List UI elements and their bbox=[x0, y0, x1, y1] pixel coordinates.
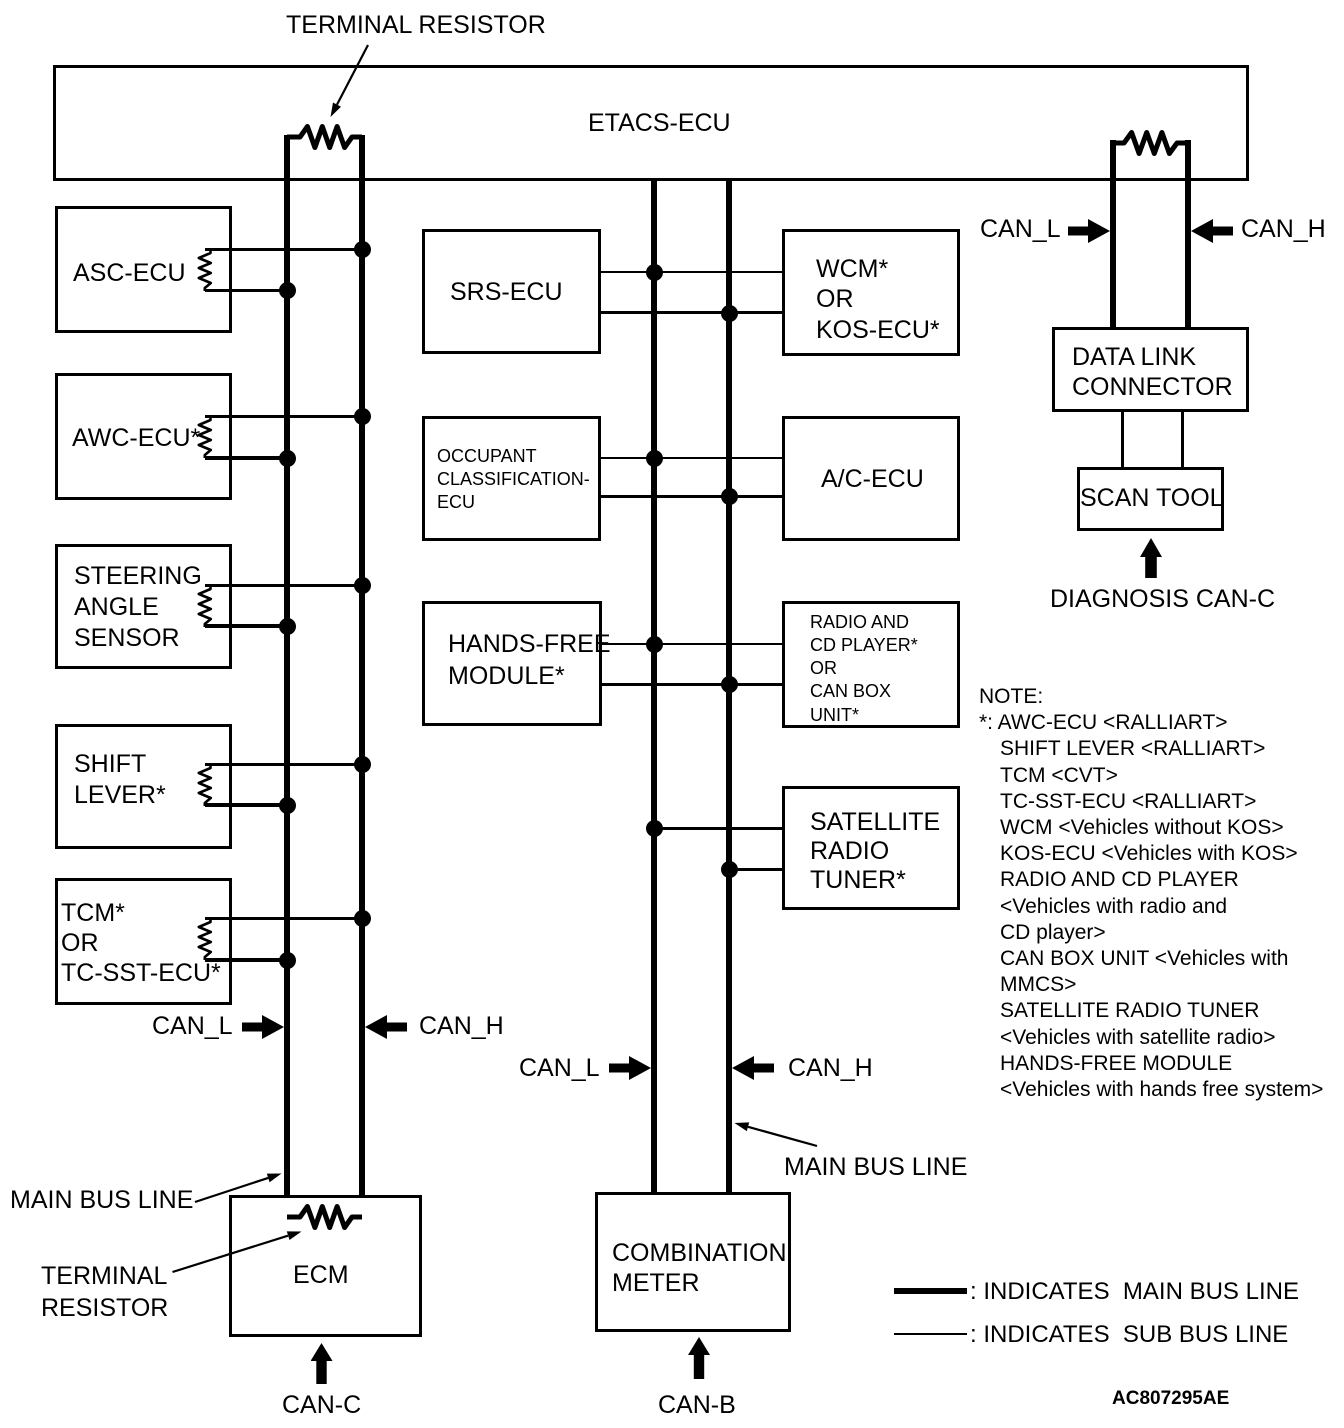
wire SRS-ECU to WCM CAN_L sub bus bbox=[601, 271, 782, 274]
node TCM CAN_L bbox=[279, 952, 296, 969]
A/C-ECU label bbox=[821, 467, 924, 492]
wire ASC-ECU CAN_H sub bus bbox=[205, 248, 362, 250]
CAN-B label bbox=[658, 1393, 736, 1418]
legend sub bus line text bbox=[970, 1323, 1288, 1347]
CAN-C label bbox=[282, 1393, 361, 1418]
wire TCM CAN_L sub bus bbox=[205, 958, 287, 961]
node SRS CAN_H bbox=[721, 305, 738, 322]
node hands-free CAN_L bbox=[646, 636, 663, 653]
CAN_L label (diagnosis bus) bbox=[980, 217, 1061, 242]
SRS-ECU label bbox=[450, 280, 563, 305]
radio and CD player label bbox=[810, 611, 918, 727]
node shift CAN_H bbox=[354, 756, 371, 773]
ASC-ECU box bbox=[55, 206, 232, 333]
wire TCM CAN_H sub bus bbox=[205, 917, 362, 919]
ASC-ECU label bbox=[73, 261, 186, 286]
main bus line CAN_H (middle, CAN-B) bbox=[726, 181, 732, 1192]
arrow main bus line (middle) bbox=[735, 1122, 818, 1146]
node steering CAN_L bbox=[279, 618, 296, 635]
wire DLC to scan tool right bbox=[1181, 412, 1184, 467]
node AWC CAN_H bbox=[354, 408, 371, 425]
ECM box bbox=[229, 1195, 422, 1337]
main bus line CAN_L (diagnosis) bbox=[1110, 140, 1116, 327]
wire hands-free to radio CAN_L sub bus bbox=[602, 643, 782, 646]
CAN_H block arrow (diagnosis bus) bbox=[1191, 219, 1233, 243]
wire satellite tuner CAN_H sub bus bbox=[729, 868, 782, 871]
TERMINAL RESISTOR label (bottom) bbox=[41, 1260, 168, 1324]
arrow terminal resistor (bottom) bbox=[173, 1231, 302, 1272]
A/C-ECU box bbox=[782, 416, 960, 541]
combination meter box bbox=[595, 1192, 791, 1332]
node AWC CAN_L bbox=[279, 450, 296, 467]
CAN_L label (middle bus) bbox=[519, 1056, 600, 1081]
resistor steering angle sensor bbox=[199, 586, 211, 627]
legend main bus line text bbox=[970, 1280, 1299, 1304]
node satellite CAN_H bbox=[721, 861, 738, 878]
node ASC CAN_H bbox=[354, 241, 371, 258]
ETACS-ECU box bbox=[53, 65, 1249, 181]
data link connector label bbox=[1072, 342, 1233, 402]
SRS-ECU box bbox=[422, 229, 601, 354]
CAN_H label (left bus) bbox=[419, 1014, 504, 1039]
ECM label bbox=[293, 1263, 349, 1288]
node occupant CAN_L bbox=[646, 450, 663, 467]
node shift CAN_L bbox=[279, 797, 296, 814]
CAN_H block arrow (left bus) bbox=[365, 1015, 407, 1039]
up arrow below combination meter (CAN-B) bbox=[688, 1337, 710, 1379]
node hands-free CAN_H bbox=[721, 676, 738, 693]
wire steering angle sensor CAN_L sub bus bbox=[205, 624, 287, 627]
resistor ASC-ECU bbox=[199, 250, 211, 291]
wire hands-free to radio CAN_H sub bus bbox=[602, 683, 782, 686]
radio and CD player / CAN box unit box bbox=[782, 601, 960, 728]
wire steering angle sensor CAN_H sub bus bbox=[205, 584, 362, 586]
steering angle sensor label bbox=[74, 561, 202, 654]
terminal resistor (ECM) bbox=[287, 1207, 362, 1228]
AWC-ECU box bbox=[55, 373, 232, 500]
shift lever label bbox=[74, 749, 166, 811]
main bus line CAN_H (left, CAN-C) bbox=[359, 135, 365, 1219]
ETACS-ECU label bbox=[588, 111, 731, 136]
TCM box bbox=[55, 878, 232, 1005]
combination meter label bbox=[612, 1238, 787, 1298]
node ASC CAN_L bbox=[279, 282, 296, 299]
satellite radio tuner box bbox=[782, 786, 960, 910]
CAN_H label (diagnosis bus) bbox=[1241, 217, 1326, 242]
wire SRS-ECU to WCM CAN_H sub bus bbox=[601, 311, 782, 314]
main bus line CAN_L (left, CAN-C) bbox=[284, 135, 290, 1219]
scan tool box bbox=[1077, 467, 1224, 531]
up arrow below ECM (CAN-C) bbox=[311, 1343, 333, 1384]
CAN_H label (middle bus) bbox=[788, 1056, 873, 1081]
CAN_L block arrow (middle bus) bbox=[609, 1056, 651, 1080]
occupant classification ECU box bbox=[422, 416, 601, 541]
wire AWC-ECU CAN_L sub bus bbox=[205, 456, 287, 459]
node TCM CAN_H bbox=[354, 910, 371, 927]
terminal resistor (top left bus) bbox=[287, 127, 362, 148]
legend sub bus line sample bbox=[894, 1333, 967, 1336]
wire ASC-ECU CAN_L sub bus bbox=[205, 289, 287, 292]
CAN_L block arrow (diagnosis bus) bbox=[1068, 219, 1110, 243]
MAIN BUS LINE label (left) bbox=[10, 1188, 193, 1213]
wire occupant ECU to A/C-ECU CAN_H sub bus bbox=[601, 495, 782, 498]
wire DLC to scan tool left bbox=[1121, 412, 1124, 467]
steering angle sensor box bbox=[55, 544, 232, 669]
legend main bus line sample bbox=[894, 1288, 967, 1294]
wire occupant ECU to A/C-ECU CAN_L sub bus bbox=[601, 457, 782, 460]
up arrow below scan tool bbox=[1140, 538, 1162, 578]
resistor shift lever bbox=[199, 765, 211, 806]
arrow terminal resistor (top) bbox=[331, 45, 369, 117]
arrow main bus line (left) bbox=[195, 1174, 282, 1203]
DIAGNOSIS CAN-C label bbox=[1050, 587, 1275, 612]
occupant classification ECU label bbox=[437, 445, 590, 514]
main bus line CAN_L (middle, CAN-B) bbox=[651, 181, 657, 1192]
CAN_L label (left bus) bbox=[152, 1014, 233, 1039]
node occupant CAN_H bbox=[721, 488, 738, 505]
satellite radio tuner label bbox=[810, 808, 940, 895]
scan tool label bbox=[1080, 486, 1224, 511]
NOTE block bbox=[979, 684, 1323, 1103]
wire satellite tuner CAN_L sub bus bbox=[654, 827, 782, 830]
hands-free module box bbox=[422, 601, 602, 726]
wire shift lever CAN_H sub bus bbox=[205, 763, 362, 765]
TERMINAL RESISTOR label (top) bbox=[286, 13, 546, 38]
main bus line CAN_H (diagnosis) bbox=[1185, 140, 1191, 327]
wire AWC-ECU CAN_H sub bus bbox=[205, 415, 362, 417]
hands-free module label bbox=[448, 628, 611, 692]
terminal resistor (diagnosis bus) bbox=[1113, 133, 1188, 154]
AWC-ECU label bbox=[72, 426, 200, 451]
node SRS CAN_L bbox=[646, 264, 663, 281]
data link connector box bbox=[1052, 327, 1249, 412]
resistor AWC-ECU bbox=[199, 417, 211, 458]
WCM / KOS-ECU label bbox=[816, 254, 940, 346]
CAN_H block arrow (middle bus) bbox=[732, 1056, 774, 1080]
resistor TCM bbox=[199, 919, 211, 960]
CAN_L block arrow (left bus) bbox=[242, 1015, 284, 1039]
wire shift lever CAN_L sub bus bbox=[205, 803, 287, 806]
WCM / KOS-ECU box bbox=[782, 229, 960, 356]
shift lever box bbox=[55, 724, 232, 849]
node steering CAN_H bbox=[354, 577, 371, 594]
MAIN BUS LINE label (middle) bbox=[784, 1155, 967, 1180]
TCM label bbox=[61, 898, 221, 988]
node satellite CAN_L bbox=[646, 820, 663, 837]
figure number AC807295AE bbox=[1112, 1389, 1229, 1408]
